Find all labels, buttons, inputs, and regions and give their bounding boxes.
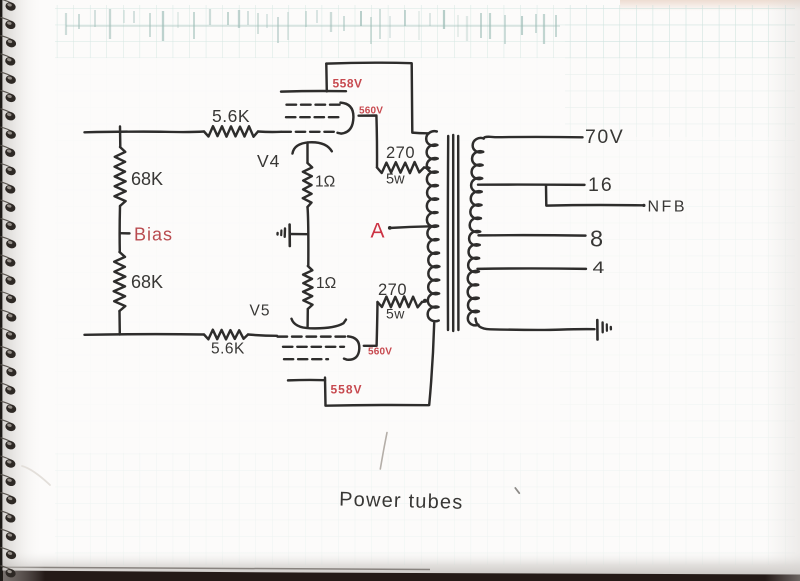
- svg-text:270: 270: [386, 144, 415, 162]
- wire: secondary return to ground: [476, 319, 595, 330]
- resistor 5.6K top: [204, 126, 258, 137]
- resistor 5.6K bottom: [204, 330, 248, 340]
- wire: 8 ohm tap: [479, 234, 586, 237]
- wire: V5 screen 560V stub: [364, 302, 378, 346]
- svg-text:NFB: NFB: [648, 199, 688, 216]
- ground: cathode bypass: [290, 233, 309, 236]
- resistor 270 5W top: [377, 162, 424, 173]
- tube V5: plate: [288, 379, 325, 382]
- svg-text:4: 4: [593, 259, 605, 278]
- wire: cathode junction rail: [306, 207, 309, 266]
- tube V4: control grid (dashed row 3): [282, 131, 338, 133]
- svg-text:68K: 68K: [131, 169, 163, 189]
- tube V4: plate: [281, 90, 346, 93]
- resistor 1ohm bottom: [303, 266, 312, 309]
- wire: 70V tap: [484, 137, 583, 139]
- svg-text:5w: 5w: [386, 172, 405, 188]
- transformer T1: primary winding: [426, 131, 439, 321]
- svg-text:560V: 560V: [368, 347, 392, 358]
- svg-text:558V: 558V: [333, 77, 363, 91]
- wire: 16 ohm tap: [478, 183, 585, 186]
- svg-text:1Ω: 1Ω: [315, 174, 335, 191]
- wire: V4 plate lead to 558V bus: [325, 64, 328, 92]
- svg-text:560V: 560V: [359, 106, 383, 117]
- wire: top-left input rail: [85, 130, 205, 133]
- wire: V5 plate drop to 558V bottom bus: [325, 323, 434, 406]
- wire: 5.6K to V4 grid: [258, 130, 281, 133]
- wire: 270 bottom to primary: [422, 301, 427, 302]
- wire: left bias rail: [118, 127, 121, 335]
- tube V4: cathode lead: [306, 143, 308, 164]
- resistor 1ohm top: [303, 163, 312, 207]
- wire: 4 ohm tap: [478, 267, 587, 270]
- resistor 68K upper: [115, 147, 126, 206]
- resistor 68K lower: [114, 252, 126, 311]
- svg-text:A: A: [371, 220, 385, 243]
- svg-text:Power tubes: Power tubes: [339, 489, 464, 514]
- svg-text:5w: 5w: [386, 306, 405, 322]
- resistor 270 5W bottom: [378, 296, 423, 307]
- node: 270 bottom to primary junction: [423, 299, 427, 303]
- wire: 5.6K to V5 grid: [248, 335, 277, 336]
- wire: V4 screen 560V stub: [359, 116, 377, 168]
- svg-text:558V: 558V: [331, 383, 363, 397]
- wire: node A center tap: [389, 226, 431, 228]
- wire: 1ohm to V5 cathode: [306, 309, 309, 327]
- tube V4: grid row 2 (dashed): [286, 116, 339, 118]
- svg-text:Bias: Bias: [134, 225, 173, 245]
- tube V5: grid bracket: [344, 336, 359, 359]
- wire: 558V top bus: [326, 63, 429, 134]
- transformer core laminations: [447, 136, 450, 330]
- tube V5: grid row 2 (dashed): [283, 346, 344, 348]
- node: 270 top to primary junction: [426, 166, 430, 170]
- svg-text:70V: 70V: [585, 126, 624, 148]
- wire: bottom-left rail: [85, 333, 205, 336]
- svg-text:5.6K: 5.6K: [211, 341, 245, 358]
- tube V4: screen grid (dashed row 1): [287, 103, 342, 105]
- transformer secondary winding: [468, 138, 484, 325]
- tube V4: grid bracket: [338, 103, 354, 134]
- tube V4: cathode arc: [293, 142, 332, 153]
- tube V5: grid row 3 (dashed): [284, 358, 328, 360]
- node: Bias tap tick: [120, 232, 130, 235]
- svg-text:1Ω: 1Ω: [316, 275, 336, 292]
- svg-text:8: 8: [590, 226, 603, 252]
- svg-text:V5: V5: [250, 303, 271, 320]
- tube V5: grid row 1 (dashed): [278, 335, 349, 337]
- svg-text:5.6K: 5.6K: [212, 106, 250, 126]
- svg-text:270: 270: [378, 281, 407, 299]
- tube V5: cathode arc: [292, 319, 347, 329]
- svg-text:68K: 68K: [131, 272, 163, 292]
- wire: NFB branch: [546, 185, 644, 206]
- node: NFB wire end blob: [642, 204, 645, 207]
- wire: 270 to primary: [424, 166, 430, 169]
- svg-text:16: 16: [588, 174, 614, 196]
- ground: secondary common: [596, 320, 599, 340]
- node: A wire end blob: [388, 226, 392, 230]
- svg-text:V4: V4: [257, 151, 280, 171]
